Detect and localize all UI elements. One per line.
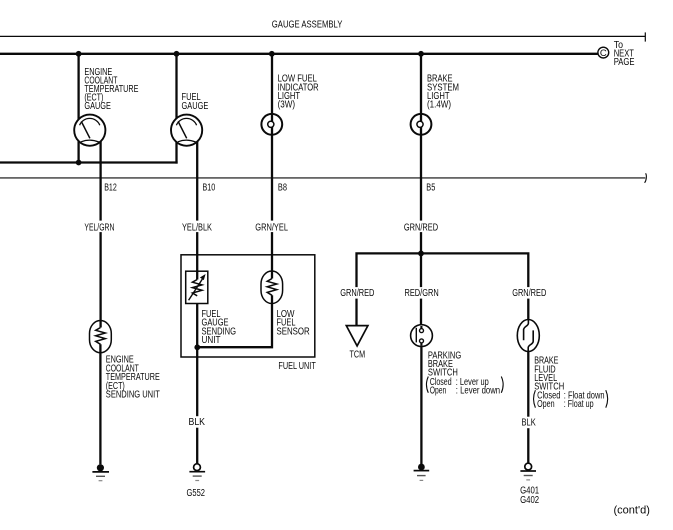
svg-text:SENSOR: SENSOR bbox=[277, 326, 310, 337]
ground: G401 G402 bbox=[520, 463, 539, 506]
fuel gauge sending unit label bbox=[202, 309, 237, 346]
low fuel indicator light label bbox=[278, 74, 319, 111]
ground: parking brake switch bbox=[414, 464, 430, 481]
wire: main power bus bbox=[0, 53, 598, 55]
ECT gauge label bbox=[84, 67, 138, 112]
ground: ECT sending unit bbox=[92, 464, 109, 481]
svg-text:(1.4W): (1.4W) bbox=[427, 100, 451, 111]
svg-text:GAUGE ASSEMBLY: GAUGE ASSEMBLY bbox=[272, 20, 343, 31]
wire: lower bus to left edge bbox=[0, 161, 178, 163]
brake fluid level switch symbol bbox=[517, 320, 539, 352]
svg-text:B10: B10 bbox=[203, 183, 216, 194]
low fuel sensor (thermistor in oval) bbox=[261, 271, 283, 304]
svg-text:BLK: BLK bbox=[189, 417, 206, 428]
parking brake switch symbol bbox=[411, 325, 433, 347]
ECT gauge symbol bbox=[74, 115, 105, 146]
connector line (B connector row) bbox=[0, 173, 646, 183]
svg-text:B12: B12 bbox=[104, 183, 117, 194]
wire: brake light to connector B5 and branch point bbox=[420, 127, 422, 254]
svg-text:GRN/RED: GRN/RED bbox=[340, 288, 374, 299]
wire: low fuel sensor lead joining fuel sender wire bbox=[196, 295, 272, 347]
svg-text:GAUGE: GAUGE bbox=[182, 101, 209, 112]
svg-text:G402: G402 bbox=[520, 495, 539, 506]
wire: fuel gauge feed bbox=[175, 54, 177, 121]
wire: BLK from fuel unit label bbox=[187, 416, 207, 428]
low fuel sensor label bbox=[277, 309, 310, 337]
svg-text:B5: B5 bbox=[426, 183, 435, 194]
wire color labels row bbox=[83, 221, 443, 234]
svg-text:GRN/RED: GRN/RED bbox=[404, 222, 438, 233]
connector C to next page bbox=[598, 40, 635, 68]
wire: ECT gauge output through connector B12 bbox=[99, 138, 101, 328]
wire: ECT gauge feed bbox=[77, 54, 79, 121]
svg-text:Open: Open bbox=[430, 385, 447, 396]
node: bus junction brake light bbox=[418, 51, 424, 57]
svg-text:SENDING UNIT: SENDING UNIT bbox=[106, 390, 160, 401]
wire: ECT sending unit to ground bbox=[99, 344, 101, 464]
TCM arrow (to TCM) bbox=[346, 326, 368, 346]
fuel gauge label bbox=[182, 92, 209, 112]
fuel unit box bbox=[181, 255, 315, 357]
svg-text:BLK: BLK bbox=[522, 417, 537, 428]
svg-text:(3W): (3W) bbox=[278, 100, 296, 111]
svg-text:YEL/BLK: YEL/BLK bbox=[182, 222, 212, 233]
svg-text:TCM: TCM bbox=[350, 350, 366, 361]
parking brake switch label bbox=[426, 351, 503, 397]
ground: G552 bbox=[187, 464, 206, 499]
node: branch junction bbox=[418, 251, 424, 257]
svg-text:FUEL UNIT: FUEL UNIT bbox=[278, 361, 315, 372]
svg-text:GAUGE: GAUGE bbox=[84, 101, 111, 112]
svg-text:RED/GRN: RED/GRN bbox=[405, 288, 439, 299]
wire: low fuel indicator feed bbox=[271, 54, 273, 122]
node: junction low fuel sensor / fuel sender bbox=[194, 344, 200, 350]
brake fluid level switch label bbox=[534, 356, 608, 410]
wire: brake fluid level switch to ground bbox=[527, 352, 529, 464]
connector pin labels bbox=[104, 183, 435, 194]
fuel gauge sending unit (variable resistor in box) bbox=[186, 271, 208, 303]
wire: fuel gauge output through connector B10 bbox=[196, 138, 198, 280]
svg-text:B8: B8 bbox=[278, 183, 287, 194]
svg-text:: Lever down: : Lever down bbox=[456, 385, 500, 396]
ECT sending unit (thermistor in oval) bbox=[90, 321, 112, 353]
svg-text:UNIT: UNIT bbox=[202, 335, 221, 346]
svg-text:C: C bbox=[600, 48, 607, 59]
brake system light label bbox=[427, 74, 459, 111]
node: lower bus junction at ECT bbox=[76, 160, 82, 166]
brake system light bulb bbox=[411, 114, 432, 135]
wire: BLK label brake fluid bbox=[520, 417, 537, 429]
svg-text:GRN/RED: GRN/RED bbox=[512, 288, 546, 299]
node: bus junction ECT bbox=[76, 51, 82, 57]
wire: brake system light feed bbox=[420, 54, 422, 122]
branch wire color labels bbox=[339, 287, 548, 299]
svg-text:Open: Open bbox=[537, 399, 555, 410]
wire: parking brake switch feed bbox=[420, 253, 422, 329]
svg-text:YEL/GRN: YEL/GRN bbox=[84, 222, 114, 233]
wire: fuel sender output to ground G552 bbox=[196, 296, 198, 463]
svg-text:PAGE: PAGE bbox=[614, 57, 635, 68]
svg-text:G552: G552 bbox=[187, 488, 206, 499]
wire: parking brake switch to ground bbox=[420, 342, 422, 464]
wire: fuel gauge left terminal to lower bus bbox=[175, 139, 177, 164]
gauge assembly box top border bbox=[0, 32, 645, 41]
wire: low fuel light to connector B8 and low fuel sensor bbox=[271, 127, 273, 279]
ECT sending unit label bbox=[106, 355, 160, 401]
node: bus junction low fuel light bbox=[269, 51, 275, 57]
wire: brake branch (TCM / parking / fluid level) bbox=[357, 253, 529, 325]
wire: ECT gauge left terminal to lower bus bbox=[77, 139, 79, 163]
node: bus junction fuel gauge bbox=[174, 51, 180, 57]
fuel gauge symbol bbox=[171, 115, 202, 146]
svg-text:: Float up: : Float up bbox=[564, 399, 594, 410]
svg-text:(cont'd): (cont'd) bbox=[614, 505, 650, 517]
svg-text:GRN/YEL: GRN/YEL bbox=[255, 222, 288, 233]
low fuel indicator light bulb bbox=[261, 114, 282, 135]
